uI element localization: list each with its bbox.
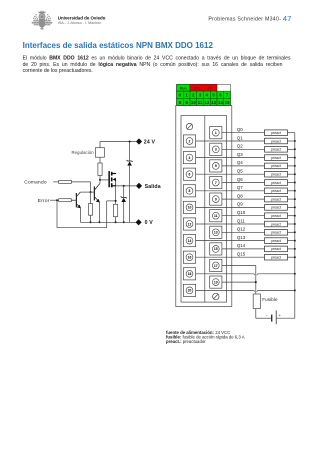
- svg-text:10: 10: [191, 100, 196, 105]
- MOSFET Q3: [108, 171, 110, 187]
- wire preact Q12 to bus: [288, 231, 295, 233]
- preactuator preact Q0: [265, 130, 288, 136]
- resistor R4 (Error): [59, 199, 72, 202]
- svg-text:Q3: Q3: [237, 152, 243, 157]
- resistor R3 (base pulldown): [90, 192, 92, 204]
- junction preact Q5/bus: [294, 173, 296, 175]
- wire preact Q15 to bus: [288, 256, 295, 258]
- wire preact Q9 to bus: [288, 206, 295, 208]
- wire preact Q3 to bus: [288, 157, 295, 159]
- svg-text:de 20 pins. Es un módulo de ló: de 20 pins. Es un módulo de lógica negat…: [23, 62, 283, 68]
- terminal 13: [210, 226, 222, 238]
- svg-text:Salida: Salida: [145, 184, 161, 190]
- terminal 20: [183, 284, 195, 296]
- svg-text:12: 12: [188, 222, 192, 226]
- svg-text:preact: preact: [271, 222, 281, 226]
- svg-text:17: 17: [214, 264, 218, 268]
- junction D2/0V: [123, 221, 125, 223]
- wire gate: [100, 179, 108, 181]
- svg-text:Q13: Q13: [237, 235, 246, 240]
- svg-text:4: 4: [189, 156, 191, 160]
- svg-text:5: 5: [215, 164, 217, 168]
- svg-text:preact: preact: [271, 189, 281, 193]
- svg-text:preact: preact: [271, 148, 281, 152]
- preactuator preact Q4: [265, 163, 288, 169]
- svg-text:20: 20: [188, 289, 192, 293]
- svg-text:19: 19: [214, 280, 218, 284]
- junction t18/bus: [294, 273, 296, 275]
- svg-text:Q10: Q10: [237, 210, 246, 215]
- junction R5/0V: [115, 221, 117, 223]
- svg-text:preact: preact: [271, 231, 281, 235]
- svg-text:preact: preact: [271, 139, 281, 143]
- wire preact Q7 to bus: [288, 190, 295, 192]
- svg-text:47: 47: [283, 14, 292, 23]
- resistor R1 (gate feed): [99, 157, 101, 163]
- svg-text:3: 3: [215, 148, 217, 152]
- junction t20/bus: [294, 289, 296, 291]
- regulator box: [99, 142, 101, 148]
- svg-text:corriente de los preactuadores: corriente de los preactuadores.: [23, 68, 93, 74]
- terminal 9: [210, 193, 222, 205]
- wire preact Q10 to bus: [288, 215, 295, 217]
- svg-text:16: 16: [188, 256, 192, 260]
- sense resistor R5: [115, 186, 117, 204]
- svg-text:preact: preact: [271, 239, 281, 243]
- svg-text:El módulo BMX DDO 1612 es un m: El módulo BMX DDO 1612 es un módulo bina…: [23, 56, 291, 62]
- Salida output wire: [116, 185, 136, 187]
- wire Q9: [196, 206, 265, 208]
- svg-text:0 V: 0 V: [145, 220, 154, 226]
- junction preact Q1/bus: [294, 140, 296, 142]
- feedback wire: [56, 200, 58, 228]
- preactuator preact Q5: [265, 171, 288, 177]
- svg-text:preact: preact: [271, 181, 281, 185]
- wire preact Q8 to bus: [288, 198, 295, 200]
- preactuator preact Q6: [265, 180, 288, 186]
- svg-text:10: 10: [188, 206, 192, 210]
- svg-text:Regulación: Regulación: [72, 150, 95, 155]
- svg-text:24 V: 24 V: [144, 140, 156, 146]
- svg-text:14: 14: [218, 100, 223, 105]
- svg-text:ERR: ERR: [193, 86, 201, 90]
- svg-text:Q8: Q8: [237, 193, 243, 198]
- LED status display table: [177, 84, 231, 105]
- terminal 10: [183, 201, 195, 213]
- wire terminal 17 to fuse: [222, 265, 256, 267]
- junction preact Q11/bus: [294, 223, 296, 225]
- svg-text:Q15: Q15: [237, 252, 246, 257]
- terminal block inner outline: [181, 116, 227, 303]
- terminal 8: [183, 185, 195, 197]
- junction preact Q9/bus: [294, 206, 296, 208]
- wire Q14: [222, 248, 265, 250]
- wire fuse to battery: [256, 317, 272, 319]
- terminal 18: [183, 268, 195, 280]
- junction preact Q14/bus: [294, 248, 296, 250]
- svg-text:Q0: Q0: [237, 127, 243, 132]
- svg-text:Q5: Q5: [237, 169, 243, 174]
- svg-text:preact: preact: [271, 247, 281, 251]
- svg-text:Universidad de Oviedo: Universidad de Oviedo: [58, 15, 106, 20]
- wire preact Q2 to bus: [288, 148, 295, 150]
- wire preact Q13 to bus: [288, 240, 295, 242]
- 24V supply wire: [100, 141, 136, 143]
- svg-text:Q7: Q7: [237, 185, 243, 190]
- terminal 19: [210, 276, 222, 288]
- wire terminal 19 to fuse line: [222, 281, 256, 283]
- terminal 7: [210, 176, 222, 188]
- svg-text:11: 11: [198, 100, 203, 105]
- right supply bus: [294, 133, 296, 319]
- module outer outline: [176, 106, 232, 307]
- wire Q0: [222, 132, 265, 134]
- svg-text:-: -: [279, 16, 281, 22]
- svg-text:preact: preact: [271, 206, 281, 210]
- junction preact Q4/bus: [294, 165, 296, 167]
- junction salida/zener: [123, 185, 125, 187]
- wire Q10: [222, 215, 265, 217]
- svg-text:preact: preact: [271, 156, 281, 160]
- svg-text:Comando: Comando: [24, 179, 47, 185]
- wire Q3: [196, 157, 265, 159]
- preactuator preact Q9: [265, 205, 288, 211]
- terminal 2: [183, 135, 195, 147]
- svg-text:Problemas Schneider M340: Problemas Schneider M340: [208, 16, 279, 22]
- svg-text:-: -: [266, 312, 268, 317]
- wire Q2: [222, 148, 265, 150]
- wire Q5: [196, 173, 265, 175]
- svg-text:preact: preact: [271, 214, 281, 218]
- transistor Q1: [76, 193, 77, 207]
- junction preact Q3/bus: [294, 157, 296, 159]
- wire battery to bus: [276, 317, 295, 319]
- terminal 3: [210, 143, 222, 155]
- svg-text:12: 12: [204, 100, 209, 105]
- terminal 5: [210, 160, 222, 172]
- terminal 17: [210, 259, 222, 271]
- zener D1 (24V rail): [129, 142, 131, 162]
- wire preact Q0 to bus: [288, 132, 295, 134]
- wire terminal 18 to bus (hops over fuse line): [196, 273, 254, 275]
- svg-text:15: 15: [225, 100, 230, 105]
- junction error/feedback: [56, 199, 58, 201]
- svg-text:14: 14: [188, 239, 192, 243]
- svg-text:1: 1: [215, 131, 217, 135]
- wire preact Q1 to bus: [288, 140, 295, 142]
- wire Q4: [222, 165, 265, 167]
- svg-text:ISA - J. Alonso - I. Machón: ISA - J. Alonso - I. Machón: [58, 21, 101, 25]
- terminal 4: [183, 152, 195, 164]
- preactuator preact Q12: [265, 230, 288, 236]
- svg-text:Interfaces de salida estáticos: Interfaces de salida estáticos NPN BMX D…: [23, 41, 214, 50]
- screw terminal top-left: [186, 123, 192, 129]
- preactuator preact Q1: [265, 138, 288, 144]
- svg-text:Q1: Q1: [237, 135, 243, 140]
- preactuator preact Q7: [265, 188, 288, 194]
- svg-text:preact: preact: [271, 256, 281, 260]
- svg-text:Q11: Q11: [237, 218, 246, 223]
- preactuator preact Q8: [265, 196, 288, 202]
- junction 24V rail: [129, 141, 131, 143]
- svg-text:Q6: Q6: [237, 177, 243, 182]
- junction preact Q7/bus: [294, 190, 296, 192]
- svg-text:13: 13: [214, 231, 218, 235]
- preactuator preact Q13: [265, 238, 288, 244]
- terminal 15: [210, 243, 222, 255]
- wire preact Q4 to bus: [288, 165, 295, 167]
- 0V bus wire: [80, 221, 135, 223]
- fuse F1: [253, 294, 260, 309]
- svg-text:preact.: preactuador: preact.: preactuador: [166, 339, 206, 344]
- resistor R2 (Comando): [59, 180, 72, 183]
- wire Q8: [222, 198, 265, 200]
- node 24 V: [136, 138, 142, 144]
- junction preact Q15/bus: [294, 256, 296, 258]
- wire terminal 20 to bus (hops over fuse line): [196, 289, 254, 291]
- preactuator preact Q14: [265, 246, 288, 252]
- svg-text:7: 7: [215, 181, 217, 185]
- preactuator preact Q3: [265, 155, 288, 161]
- junction t19/fuse: [255, 281, 257, 283]
- terminal 1: [210, 127, 222, 139]
- preactuator preact Q15: [265, 254, 288, 260]
- svg-text:Q4: Q4: [237, 160, 243, 165]
- svg-text:I/O: I/O: [208, 86, 213, 90]
- LED rows 2-3 numbered cells: [177, 91, 184, 98]
- junction preact Q6/bus: [294, 182, 296, 184]
- wire preact Q5 to bus: [288, 173, 295, 175]
- screw terminal bottom-right: [213, 293, 219, 299]
- preactuator preact Q11: [265, 221, 288, 227]
- svg-text:13: 13: [211, 100, 216, 105]
- column divider: [204, 116, 206, 303]
- wire preact Q6 to bus: [288, 182, 295, 184]
- node Salida: [136, 183, 142, 189]
- svg-text:Q2: Q2: [237, 144, 243, 149]
- svg-text:8: 8: [189, 189, 191, 193]
- preactuator preact Q10: [265, 213, 288, 219]
- svg-text:Error: Error: [38, 198, 50, 204]
- terminal 6: [183, 168, 195, 180]
- svg-text:Fusible: Fusible: [262, 297, 278, 302]
- svg-text:Run: Run: [180, 87, 187, 91]
- terminal 12: [183, 218, 195, 230]
- svg-text:+: +: [279, 313, 282, 318]
- svg-text:15: 15: [214, 247, 218, 251]
- zener D2 (output): [123, 186, 125, 198]
- wire Q15: [196, 256, 265, 258]
- svg-text:preact: preact: [271, 197, 281, 201]
- junction preact Q2/bus: [294, 148, 296, 150]
- wire preact Q11 to bus: [288, 223, 295, 225]
- node base Q2: [90, 191, 92, 193]
- svg-text:Q12: Q12: [237, 227, 246, 232]
- svg-text:Q14: Q14: [237, 243, 246, 248]
- terminal 11: [210, 210, 222, 222]
- junction Q2e/0V: [98, 221, 100, 223]
- junction preact Q12/bus: [294, 231, 296, 233]
- logo Universidad de Oviedo crest: [32, 10, 53, 29]
- node gate: [99, 179, 101, 181]
- wire Q1: [196, 140, 265, 142]
- preactuator preact Q2: [265, 147, 288, 153]
- transistor Q2: [94, 186, 95, 200]
- wire Q11: [196, 223, 265, 225]
- svg-text:11: 11: [214, 214, 218, 218]
- svg-text:18: 18: [188, 272, 192, 276]
- junction R3/0V: [90, 221, 92, 223]
- svg-text:Q9: Q9: [237, 202, 243, 207]
- node 0 V: [136, 219, 142, 225]
- svg-text:2: 2: [189, 139, 191, 143]
- wire Q13: [196, 240, 265, 242]
- junction preact Q10/bus: [294, 215, 296, 217]
- svg-text:preact: preact: [271, 173, 281, 177]
- junction preact Q13/bus: [294, 240, 296, 242]
- svg-text:6: 6: [189, 173, 191, 177]
- wire Q12: [222, 231, 265, 233]
- junction sense: [115, 200, 117, 202]
- junction preact Q8/bus: [294, 198, 296, 200]
- svg-text:9: 9: [215, 197, 217, 201]
- wire Q6: [222, 182, 265, 184]
- terminal 16: [183, 251, 195, 263]
- battery 24 VCC: [271, 315, 272, 322]
- svg-text:preact: preact: [271, 131, 281, 135]
- wire preact Q14 to bus: [288, 248, 295, 250]
- wire Q7: [196, 190, 265, 192]
- svg-text:preact: preact: [271, 164, 281, 168]
- terminal 14: [183, 235, 195, 247]
